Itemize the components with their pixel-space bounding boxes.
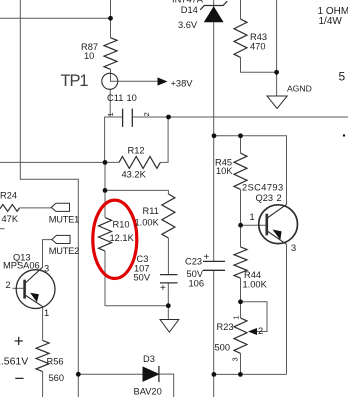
svg-text:10K: 10K — [216, 166, 233, 176]
wire Q13 base stub pin 2 — [13, 287, 25, 289]
svg-text:3: 3 — [291, 243, 296, 253]
svg-text:D3: D3 — [143, 354, 155, 364]
red highlight ellipse around R10 — [93, 200, 137, 278]
svg-text:2: 2 — [6, 280, 11, 290]
wire AGND vertical — [276, 0, 278, 96]
svg-text:5: 5 — [339, 70, 346, 84]
svg-text:AGND: AGND — [287, 84, 312, 94]
svg-text:+: + — [160, 283, 166, 294]
wire left horizontal net to R12 — [0, 161, 119, 163]
svg-text:1.561V: 1.561V — [0, 356, 28, 368]
svg-text:43.2K: 43.2K — [122, 170, 147, 180]
svg-text:3: 3 — [231, 357, 240, 361]
wire C11 pin2 long horizontal net — [132, 116, 348, 118]
capacitor C23 plates — [203, 261, 225, 270]
wire node A horizontal (R10/R11 top) — [104, 162, 106, 217]
testpoint TP1 circle — [102, 73, 118, 89]
svg-text:+: + — [14, 332, 24, 351]
wire R43 bottom to AGND node — [241, 57, 277, 72]
wire R45 top — [240, 136, 242, 153]
svg-text:R24: R24 — [0, 191, 17, 201]
svg-text:R10: R10 — [113, 220, 130, 230]
transistor Q13 — [16, 267, 55, 308]
resistor R12 zigzag — [119, 156, 160, 168]
svg-text:BAV20: BAV20 — [134, 387, 162, 397]
svg-text:106: 106 — [189, 279, 205, 289]
svg-text:Q23: Q23 — [256, 193, 274, 203]
svg-text:1.00K: 1.00K — [243, 280, 268, 290]
svg-text:3.6V: 3.6V — [178, 20, 198, 30]
svg-text:10: 10 — [84, 51, 94, 61]
wire stub at left edge — [0, 228, 5, 230]
svg-text:10: 10 — [127, 93, 137, 103]
connector MUTE2 tag — [52, 235, 70, 243]
wire R10 bottom to ground node — [105, 251, 168, 306]
arrow to +38V — [110, 77, 168, 85]
svg-text:47K: 47K — [2, 214, 19, 224]
wire bottom net left (to D3 anode) — [78, 373, 143, 375]
svg-text:TP1: TP1 — [61, 72, 89, 90]
svg-text:C23: C23 — [185, 257, 202, 267]
wire MUTE2 to Q13 collector — [43, 240, 52, 268]
svg-text:R43: R43 — [250, 32, 267, 42]
wire R87 top vertical — [110, 0, 112, 38]
svg-text:1: 1 — [250, 212, 255, 222]
svg-text:1: 1 — [106, 112, 115, 116]
svg-text:1: 1 — [232, 315, 241, 319]
svg-text:R23: R23 — [217, 322, 234, 332]
wire R56 bottom — [42, 372, 44, 397]
zener diode D14 — [200, 1, 227, 22]
wire R44 bottom node — [240, 278, 242, 318]
svg-text:50V: 50V — [187, 269, 204, 279]
resistor R87 zigzag — [104, 38, 117, 70]
wire R43 top stub — [240, 0, 242, 19]
svg-text:D14: D14 — [181, 5, 198, 15]
wire R23 bottom — [240, 353, 242, 374]
ground AGND triangle — [267, 96, 287, 109]
svg-text:+38V: +38V — [171, 79, 194, 89]
svg-text:IN747A: IN747A — [172, 0, 204, 5]
wire top horizontal net to R87 — [0, 17, 111, 19]
potentiometer R23 zigzag — [234, 318, 247, 353]
svg-text:R56: R56 — [47, 357, 64, 367]
ground triangle below C3 — [160, 320, 179, 333]
wire D3 cathode corner down — [159, 374, 174, 397]
svg-text:C11: C11 — [107, 93, 123, 103]
svg-text:MUTE1: MUTE1 — [49, 215, 79, 225]
transistor Q23 — [259, 205, 298, 245]
wire +38V rail to Q23 collector — [214, 136, 287, 205]
wire Q23 emitter down — [286, 244, 288, 374]
svg-text:3: 3 — [44, 264, 49, 274]
resistor R11 zigzag — [162, 194, 175, 238]
svg-text:2: 2 — [142, 112, 151, 116]
diode D3 — [143, 366, 159, 382]
svg-text:50V: 50V — [134, 272, 151, 282]
wire C23 bottom vertical — [213, 270, 215, 397]
resistor R10 zigzag — [99, 218, 112, 252]
wire R24 to MUTE1 — [20, 207, 52, 209]
svg-text:12.1K: 12.1K — [110, 233, 135, 243]
wire R23 wiper loop — [241, 302, 268, 332]
connector MUTE1 tag — [51, 203, 69, 211]
svg-text:MUTE2: MUTE2 — [49, 246, 79, 256]
svg-text:1: 1 — [44, 308, 49, 318]
svg-text:2: 2 — [258, 326, 263, 336]
resistor R56 zigzag — [36, 340, 49, 371]
potentiometer R23 wiper arrow — [248, 328, 257, 335]
wire R45 bottom / Q23 base node — [240, 189, 242, 247]
svg-text:2SC4793: 2SC4793 — [242, 183, 284, 193]
wire TP1 to C11 node — [110, 69, 112, 81]
svg-text:470: 470 — [250, 42, 266, 52]
wire C11 pin1 — [105, 117, 123, 162]
resistor R24 zigzag — [0, 205, 20, 212]
svg-text:1.00K: 1.00K — [135, 218, 160, 228]
wire left vertical bus — [20, 0, 78, 397]
resistor R45 zigzag — [234, 153, 247, 189]
wire Q23 base — [241, 224, 266, 226]
svg-text:R12: R12 — [128, 146, 145, 156]
capacitor C11 plates — [123, 109, 133, 127]
wire Q13 emitter to R56 — [42, 307, 44, 341]
svg-text:MPSA06: MPSA06 — [3, 261, 40, 271]
wire D14 branch vertical — [213, 0, 215, 261]
svg-text:1/4W: 1/4W — [319, 16, 343, 27]
svg-text:500: 500 — [215, 343, 231, 353]
resistor R43 zigzag — [234, 19, 247, 57]
resistor R44 zigzag — [234, 247, 247, 278]
wire bottom net right — [214, 373, 287, 375]
wire R12 right vertical — [160, 117, 168, 162]
capacitor C3 plates — [160, 275, 178, 283]
svg-text:−: − — [15, 369, 25, 388]
svg-text:R11: R11 — [143, 206, 159, 216]
svg-text:560: 560 — [49, 373, 65, 383]
wire C3 bottom to ground junction — [167, 283, 169, 320]
svg-text:+: + — [204, 252, 210, 263]
wire R11 bottom to C3 — [167, 238, 169, 275]
svg-text:2: 2 — [277, 193, 282, 203]
